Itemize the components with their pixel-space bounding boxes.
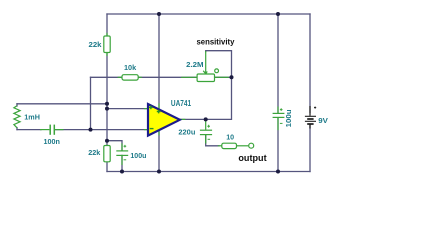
svg-text:1mH: 1mH <box>24 113 40 122</box>
svg-text:sensitivity: sensitivity <box>197 37 235 47</box>
svg-text:22k: 22k <box>88 148 101 157</box>
svg-text:10: 10 <box>226 132 234 141</box>
svg-text:100u: 100u <box>286 109 293 127</box>
svg-text:100u: 100u <box>130 151 146 160</box>
svg-text:UA741: UA741 <box>171 99 192 108</box>
svg-text:2.2M: 2.2M <box>186 60 203 69</box>
svg-text:220u: 220u <box>178 128 195 137</box>
svg-text:100n: 100n <box>44 137 61 146</box>
svg-text:9V: 9V <box>318 116 328 125</box>
svg-text:22k: 22k <box>89 40 103 49</box>
svg-text:10k: 10k <box>124 63 137 72</box>
svg-text:output: output <box>238 153 266 163</box>
